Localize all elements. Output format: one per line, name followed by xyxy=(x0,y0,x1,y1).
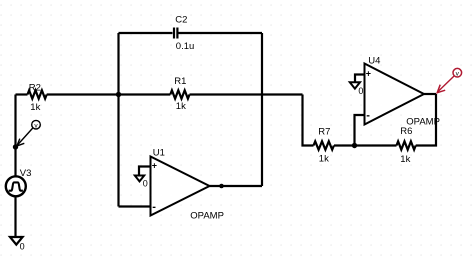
wire R7 to R6 xyxy=(334,144,397,146)
svg-text:+: + xyxy=(366,68,371,78)
wire U1 minus input xyxy=(119,205,151,207)
wire U4 plus to ground xyxy=(355,75,365,83)
wire U4 output xyxy=(424,93,436,95)
resistor R7 xyxy=(314,141,334,149)
svg-text:V3: V3 xyxy=(20,168,32,179)
wire left vertical C2-loop down to U1 minus xyxy=(117,33,119,207)
junction U1 output pin dot xyxy=(219,184,224,189)
wire U4 minus feedback tap xyxy=(355,115,365,146)
svg-text:R7: R7 xyxy=(318,127,330,138)
ground main (node 0) xyxy=(10,237,25,251)
junction R7/R6/U4-minus xyxy=(352,143,357,148)
wire V3 bottom lead to ground xyxy=(14,197,16,239)
junction main row / left C2 branch xyxy=(116,92,121,97)
resistor R6 xyxy=(397,141,416,149)
wire R6 to output corner xyxy=(416,94,436,146)
svg-text:0: 0 xyxy=(358,86,363,96)
svg-text:0: 0 xyxy=(20,241,25,251)
svg-text:OPAMP: OPAMP xyxy=(190,211,224,222)
resistor R2 xyxy=(28,90,47,98)
wire right vertical C2-loop to U1 output xyxy=(261,33,263,186)
svg-text:1k: 1k xyxy=(400,154,410,165)
svg-text:0.1u: 0.1u xyxy=(176,41,195,52)
svg-text:U4: U4 xyxy=(368,55,380,66)
wire down to R7 row xyxy=(303,95,314,146)
wire C2 to top-right corner xyxy=(179,32,263,34)
svg-text:1k: 1k xyxy=(319,154,329,165)
op-amp U1 xyxy=(151,157,210,216)
svg-text:-: - xyxy=(152,201,156,213)
svg-text:+: + xyxy=(152,160,157,170)
ground U1 (node 0) xyxy=(135,176,148,189)
ground U4 (node 0) xyxy=(350,82,364,96)
capacitor C2 xyxy=(174,28,177,39)
svg-text:1k: 1k xyxy=(176,101,186,112)
svg-text:-: - xyxy=(366,109,370,121)
svg-text:0: 0 xyxy=(143,178,148,188)
svg-text:R2: R2 xyxy=(29,82,41,93)
wire U1 plus to ground xyxy=(139,167,151,177)
wire R2 to R1 xyxy=(47,93,171,95)
wire top-left to C2 xyxy=(119,32,173,34)
svg-text:C2: C2 xyxy=(175,15,187,26)
voltage probe on input node xyxy=(17,120,40,146)
svg-text:R1: R1 xyxy=(174,76,186,87)
wire R1 to right corner xyxy=(190,93,303,95)
wire U1 output to right vertical xyxy=(210,185,263,187)
source V3 xyxy=(6,176,26,196)
svg-text:OPAMP: OPAMP xyxy=(406,117,440,128)
wire main input row left corner xyxy=(16,93,28,95)
wire V3 top lead xyxy=(14,95,16,177)
voltage probe on output node (red) xyxy=(437,68,461,92)
resistor R1 xyxy=(170,90,189,98)
junction probe node on V3 wire xyxy=(13,144,18,149)
svg-text:U1: U1 xyxy=(153,148,165,159)
svg-text:1k: 1k xyxy=(30,102,40,113)
op-amp U4 xyxy=(365,64,425,125)
svg-text:R6: R6 xyxy=(400,126,412,137)
